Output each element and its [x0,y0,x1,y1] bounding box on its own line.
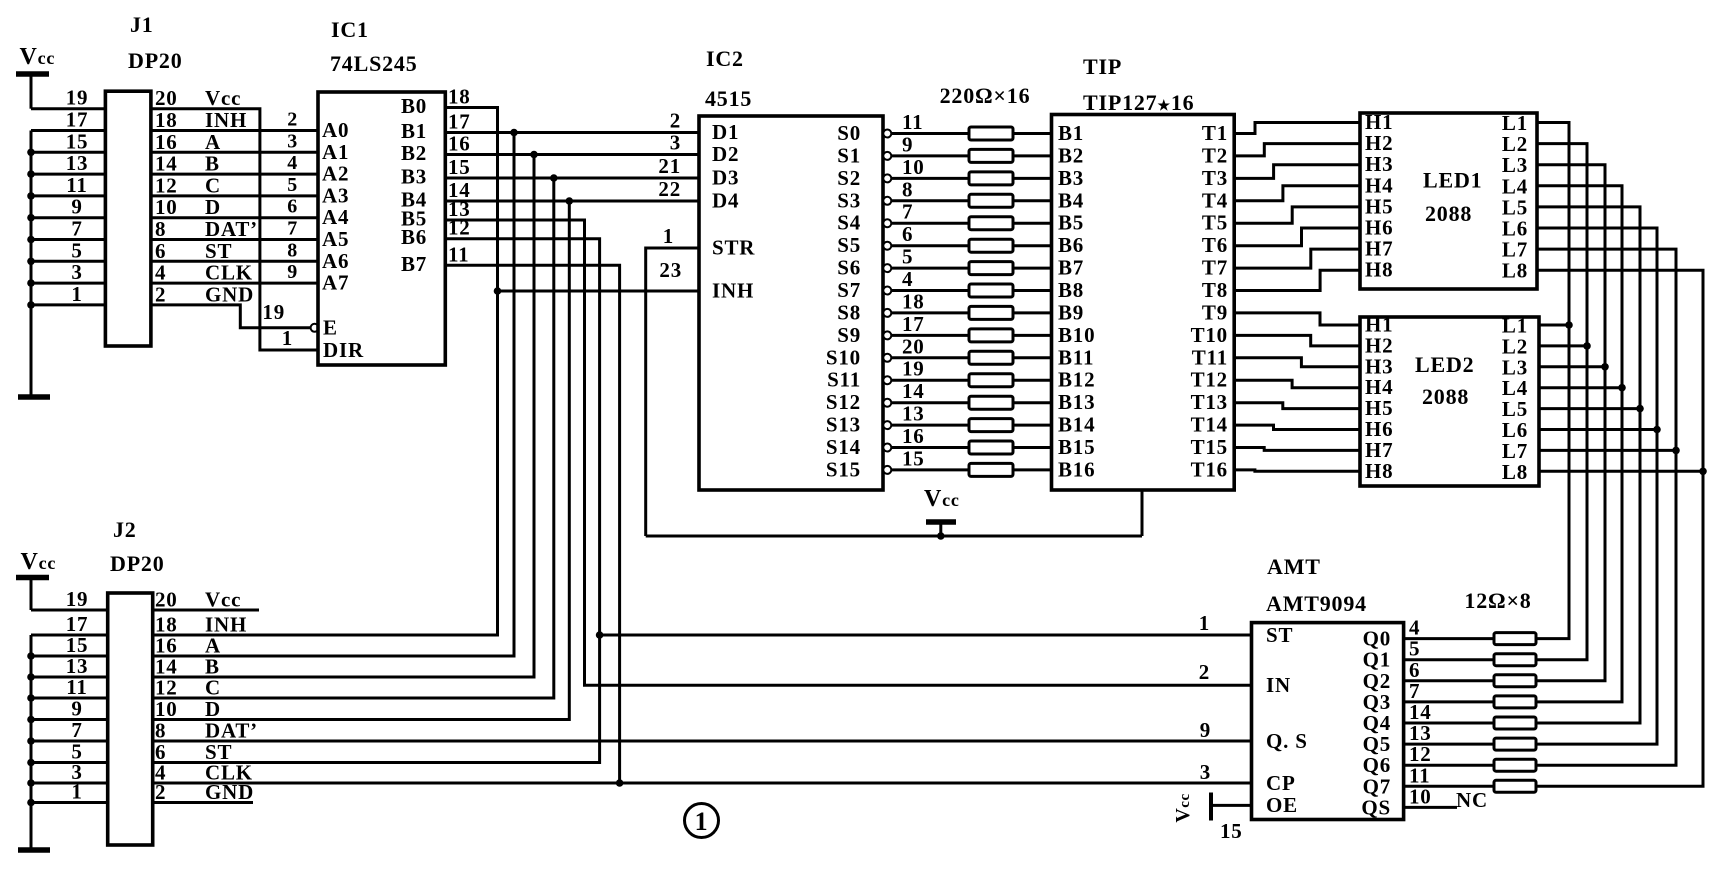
wire IC2 S4 to resistor R5 [891,222,969,225]
svg-text:4: 4 [902,267,913,291]
svg-text:19: 19 [66,86,89,110]
resistor r5 12 ohm [1494,717,1536,729]
resistor R15 220 ohm [969,441,1013,454]
connector J2 body [108,593,153,845]
svg-text:2: 2 [155,282,166,306]
wire LED2 L5 branch [1539,407,1640,410]
resistor R9 220 ohm [969,306,1013,319]
wire resistor R14 to TIP B14 [1013,424,1052,427]
svg-text:T6: T6 [1202,233,1228,257]
svg-text:9: 9 [1200,718,1211,742]
wire AMT Q0 to resistor r1 [1404,637,1494,640]
wire J2 pin 9 to ground bus [27,716,108,724]
wire resistor R10 to TIP B10 [1013,334,1052,337]
wire J1 pin 19 to Vcc [31,107,105,110]
svg-text:D4: D4 [712,189,739,213]
wire TIP T2 to LED1 H2 [1234,144,1360,156]
J1 right pin 12 label C [155,173,221,197]
svg-text:4515: 4515 [705,86,752,111]
J1 right pin 6 label ST [155,239,232,263]
svg-text:1: 1 [71,282,82,306]
svg-text:B16: B16 [1058,457,1095,481]
resistor r2 12 ohm [1494,654,1536,666]
wire LED1 L3 column to resistor r3 [1536,165,1609,681]
svg-text:1: 1 [663,224,674,248]
wire LED2 L6 branch [1539,428,1657,431]
wire C net vertical to J2 pin 12 [153,178,554,698]
resistor r1 12 ohm [1494,633,1536,645]
svg-text:1: 1 [1199,611,1210,635]
wire resistor R1 to TIP B1 [1013,132,1052,135]
wire TIP T1 to LED1 H1 [1234,123,1360,134]
svg-text:74LS245: 74LS245 [330,51,418,76]
svg-text:B7: B7 [401,252,427,276]
IC2 output pin 6 bubble [883,242,891,250]
svg-text:8: 8 [287,239,298,261]
svg-text:S14: S14 [826,435,861,459]
wire J1 pin 10 D to IC1 A4 [151,216,318,219]
svg-text:10: 10 [902,155,925,179]
wire LED1 L2 column to resistor r2 [1536,144,1591,660]
svg-text:D1: D1 [712,120,739,144]
wire LED1 L6 column to resistor r6 [1536,228,1661,744]
svg-text:9: 9 [902,132,913,156]
resistor R16 220 ohm [969,463,1013,476]
wire A net vertical to J2 pin 16 [153,133,514,657]
J2 right pin 6 label ST [155,740,232,764]
svg-text:INH: INH [205,108,247,132]
J2 right pin 16 label A [155,634,221,658]
svg-text:B2: B2 [1058,143,1084,167]
resistor r3 12 ohm [1494,675,1536,687]
svg-text:QS: QS [1361,795,1391,819]
svg-text:B9: B9 [1058,300,1084,324]
wire J1 pin 14 B to IC1 A2 [151,173,318,176]
svg-text:S7: S7 [837,278,861,302]
IC2 output pin 8 bubble [883,197,891,205]
svg-text:T13: T13 [1191,390,1228,414]
inverter bubble E pin IC1 [311,324,319,332]
svg-text:CP: CP [1266,771,1296,795]
svg-text:A: A [205,130,221,154]
wire CLK net B7 to J2 pin 4 and AMT CP [153,265,624,787]
power Vcc symbol J1 [16,44,55,109]
svg-text:8: 8 [902,177,913,201]
svg-text:9: 9 [71,697,82,721]
svg-text:S15: S15 [826,457,861,481]
svg-text:STR: STR [712,236,755,260]
svg-text:8: 8 [155,217,166,241]
svg-text:3: 3 [670,131,681,155]
svg-text:T8: T8 [1202,278,1228,302]
svg-text:B12: B12 [1058,368,1095,392]
wire IC2 S11 to resistor R12 [891,379,969,382]
svg-text:T10: T10 [1191,323,1228,347]
svg-text:A3: A3 [322,183,349,207]
svg-text:B7: B7 [1058,256,1084,280]
svg-text:D2: D2 [712,142,739,166]
wire IC2 S13 to resistor R14 [891,424,969,427]
svg-text:TIP127★16: TIP127★16 [1083,90,1194,115]
svg-text:INH: INH [712,279,754,303]
svg-text:Vcc: Vcc [205,86,241,110]
wire J2 DAT to AMT QS [153,740,1252,743]
wire AMT QS NC stub [1404,806,1457,809]
wire resistor R3 to TIP B3 [1013,177,1052,180]
resistor R3 220 ohm [969,172,1013,185]
wire TIP T3 to LED1 H3 [1234,165,1360,179]
op IC1 74LS245 body [318,92,445,365]
wire J1 pin 3 to ground bus [27,279,105,287]
wire J1 pin 12 C to IC1 A3 [151,194,318,197]
svg-text:8: 8 [155,719,166,743]
wire J2 pin 15 to ground bus [27,652,108,660]
wire AMT Q3 to resistor r4 [1404,700,1494,703]
display LED2 2088 body [1360,317,1539,486]
svg-text:Vcc: Vcc [20,44,56,70]
wire J1 pin 17 to ground bus [31,129,105,132]
wire IC2 S12 to resistor R13 [891,401,969,404]
svg-text:Vcc: Vcc [21,549,57,575]
wire resistor R5 to TIP B5 [1013,222,1052,225]
svg-text:4: 4 [155,261,166,285]
LED1 2088 title [1423,168,1482,227]
wire J2 pin 20 Vcc stub [153,609,259,612]
wire TIP T11 to LED2 H3 [1234,358,1360,367]
svg-text:ST: ST [1266,623,1293,647]
wire resistor R13 to TIP B13 [1013,401,1052,404]
wire resistor R7 to TIP B7 [1013,267,1052,270]
connector J1 title [128,12,183,73]
resistor r4 12 ohm [1494,696,1536,708]
svg-text:13: 13 [66,151,89,175]
wire IC2 S3 to resistor R4 [891,199,969,202]
wire IC2 S7 to resistor R8 [891,289,969,292]
wire J1 pin 18 INH to IC1 A0 [151,129,318,132]
svg-text:12Ω×8: 12Ω×8 [1464,588,1531,613]
ground bar J1 [18,394,50,400]
wire DAT net B5 to AMT IN [445,220,1251,685]
svg-text:18: 18 [902,289,925,313]
wire AMT Q7 to resistor r8 [1404,785,1494,788]
wire TIP T9 to LED2 H1 [1234,313,1360,325]
svg-text:T3: T3 [1202,166,1228,190]
svg-text:3: 3 [287,130,298,152]
wire ST net branch to AMT ST [600,634,1252,637]
IC2 output pin 5 bubble [883,264,891,272]
svg-text:Vcc: Vcc [924,486,960,512]
svg-text:9: 9 [71,195,82,219]
svg-text:1: 1 [282,326,293,350]
node B net junction [445,151,699,159]
wire LED2 L7 branch [1539,449,1676,452]
node C net junction [445,174,699,182]
wire IC2 S8 to resistor R9 [891,311,969,314]
wire LED1 L5 column to resistor r5 [1536,207,1644,723]
wire J2 pin 3 to ground bus [27,779,108,787]
svg-text:11: 11 [902,110,923,134]
wire LED2 L1 branch [1539,324,1569,327]
svg-text:S11: S11 [827,368,861,392]
svg-text:S9: S9 [837,323,861,347]
svg-text:13: 13 [902,402,925,426]
resistor R11 220 ohm [969,351,1013,364]
svg-text:T2: T2 [1202,143,1228,167]
wire resistor R6 to TIP B6 [1013,244,1052,247]
wire TIP T6 to LED1 H6 [1234,228,1360,246]
wire resistor R15 to TIP B15 [1013,446,1052,449]
wire LED1 L1 column to resistor r1 [1536,123,1573,639]
wire TIP T16 to LED2 H8 [1234,470,1360,471]
svg-text:20: 20 [155,86,178,110]
wire TIP T13 to LED2 H5 [1234,403,1360,409]
wire J2 pin 13 to ground bus [27,673,108,681]
wire TIP T5 to LED1 H5 [1234,207,1360,223]
svg-text:14: 14 [155,152,178,176]
IC2 output pin 11 bubble [883,130,891,138]
svg-text:T4: T4 [1202,188,1228,212]
wire J1 pin 13 to ground bus [27,170,105,178]
J2 right pin 14 label B [155,655,220,679]
J2 right pin 18 label INH [155,613,247,637]
svg-text:21: 21 [658,154,681,178]
wire AMT Q6 to resistor r7 [1404,764,1494,767]
AMT QS output label [1361,784,1431,819]
svg-text:3: 3 [1200,760,1211,784]
IC2 output pin 15 bubble [883,466,891,474]
svg-text:TIP: TIP [1083,54,1122,79]
wire IC2 STR pin 1 to Vcc rail [646,248,699,536]
resistor R13 220 ohm [969,396,1013,409]
J2 right pin 8 label DAT’ [155,719,258,743]
svg-text:DP20: DP20 [128,48,183,73]
svg-text:T11: T11 [1192,345,1228,369]
J1 right pin 20 label Vcc [155,86,241,110]
svg-text:12: 12 [155,676,178,700]
power Vcc symbol bottom rail [924,486,960,540]
svg-text:T7: T7 [1202,256,1228,280]
wire LED2 L2 branch [1539,344,1587,347]
svg-text:17: 17 [448,110,471,134]
svg-text:1: 1 [71,780,82,804]
resistor R8 220 ohm [969,284,1013,297]
wire J2 pin 1 to ground bus [27,799,108,807]
svg-text:B14: B14 [1058,413,1095,437]
svg-text:AMT9094: AMT9094 [1266,591,1367,616]
resistor R12 220 ohm [969,374,1013,387]
connector J1 body [105,91,150,346]
svg-text:10: 10 [1409,784,1432,808]
svg-text:2: 2 [155,780,166,804]
svg-text:D: D [205,697,221,721]
wire TIP T12 to LED2 H4 [1234,380,1360,388]
svg-text:B6: B6 [401,225,427,249]
svg-text:CLK: CLK [205,261,253,285]
wire J1 pin 15 to ground bus [27,149,105,157]
svg-text:10: 10 [155,697,178,721]
wire LED2 L3 branch [1539,365,1605,368]
svg-text:S8: S8 [837,300,861,324]
sound chip AMT9094 body [1252,623,1404,820]
wire resistor R12 to TIP B12 [1013,379,1052,382]
svg-text:DP20: DP20 [110,551,165,576]
J2 right pin 10 label D [155,697,221,721]
resistor R14 220 ohm [969,419,1013,432]
svg-text:DIR: DIR [323,338,364,362]
svg-text:5: 5 [287,174,298,196]
resistor R2 220 ohm [969,149,1013,162]
wire J1 pin 11 to ground bus [27,192,105,200]
wire J1 pin 7 to ground bus [27,236,105,244]
wire AMT Q5 to resistor r6 [1404,743,1494,746]
AMT9094 title [1266,554,1367,616]
wire D net vertical to J2 pin 10 [153,201,570,720]
wire J1 pin 5 to ground bus [27,258,105,266]
wire AMT Q4 to resistor r5 [1404,722,1494,725]
svg-text:17: 17 [902,312,925,336]
wire J2 pin 19 to Vcc [31,609,108,612]
wire Vcc rail bottom [646,535,1142,538]
svg-text:22: 22 [658,177,681,201]
wire resistor R8 to TIP B8 [1013,289,1052,292]
svg-text:OE: OE [1266,793,1298,817]
J1 right pin 10 label D [155,195,221,219]
svg-text:17: 17 [66,108,89,132]
svg-text:A7: A7 [322,271,349,295]
ground bus J2 [30,635,33,849]
wire J1 pin 16 A to IC1 A1 [151,151,318,154]
svg-text:A0: A0 [322,118,349,142]
svg-text:A6: A6 [322,249,349,273]
node D net junction [445,197,699,205]
svg-text:16: 16 [155,130,178,154]
svg-text:7: 7 [71,217,82,241]
svg-text:19: 19 [902,357,925,381]
IC2 output pin 7 bubble [883,219,891,227]
IC1 74LS245 title [330,17,418,76]
wire J2 GND stub [153,801,253,804]
svg-text:B: B [205,152,220,176]
svg-text:S1: S1 [837,143,861,167]
IC2 output pin 10 bubble [883,174,891,182]
wire resistor R9 to TIP B9 [1013,311,1052,314]
svg-text:S4: S4 [837,211,861,235]
wire J1 pin 4 CLK to IC1 A7 [151,282,318,285]
wire resistor R2 to TIP B2 [1013,154,1052,157]
svg-text:7: 7 [287,218,298,240]
svg-text:B11: B11 [1058,345,1094,369]
svg-text:11: 11 [66,675,87,699]
wire LED1 L4 column to resistor r4 [1536,186,1626,702]
svg-text:18: 18 [448,85,471,109]
svg-text:7: 7 [902,200,913,224]
svg-text:GND: GND [205,780,254,804]
svg-text:T1: T1 [1202,121,1228,145]
svg-text:S2: S2 [837,166,861,190]
svg-text:H8: H8 [1365,459,1393,483]
svg-text:LED2: LED2 [1415,352,1474,377]
svg-text:T5: T5 [1202,211,1228,235]
IC1 pin DIR label [282,326,364,362]
wire IC2 S1 to resistor R2 [891,154,969,157]
svg-text:LED1: LED1 [1423,168,1482,193]
wire IC2 INH pin 23 branch [498,290,700,293]
power Vcc symbol AMT OE [1172,793,1252,823]
wire AMT Q1 to resistor r2 [1404,658,1494,661]
svg-text:T9: T9 [1202,300,1228,324]
wire B0 INH net to IC2 INH and J2 pin 18 [153,108,502,636]
svg-text:A4: A4 [322,205,349,229]
resistor R4 220 ohm [969,194,1013,207]
svg-text:B0: B0 [401,94,427,118]
svg-text:B13: B13 [1058,390,1095,414]
resistor r7 12 ohm [1494,759,1536,771]
svg-text:5: 5 [902,245,913,269]
wire J2 pin 5 to ground bus [27,759,108,767]
svg-text:NC: NC [1456,788,1488,812]
svg-text:6: 6 [287,196,298,218]
wire resistor R11 to TIP B11 [1013,356,1052,359]
svg-text:7: 7 [71,718,82,742]
IC2 output pin 20 bubble [883,354,891,362]
svg-text:B1: B1 [401,119,427,143]
resistor R1 220 ohm [969,127,1013,140]
resistor R7 220 ohm [969,262,1013,275]
svg-text:Q. S: Q. S [1266,729,1308,753]
svg-text:12: 12 [155,173,178,197]
IC1 pin E label [262,300,337,340]
svg-text:15: 15 [902,446,925,470]
wire J1 pin 9 to ground bus [27,214,105,222]
svg-text:S0: S0 [837,121,861,145]
wire CLK net branch to AMT CP [620,782,1252,785]
J2 right pin 20 label Vcc [155,588,241,612]
wire B net vertical to J2 pin 14 [153,155,534,678]
wire TIP T8 to LED1 H8 [1234,270,1360,290]
svg-text:B1: B1 [1058,121,1084,145]
wire J1 GND to E [151,305,311,328]
svg-text:S13: S13 [826,413,861,437]
svg-text:DAT’: DAT’ [205,217,258,241]
svg-text:A5: A5 [322,227,349,251]
svg-text:S6: S6 [837,256,861,280]
IC2 output pin 16 bubble [883,444,891,452]
svg-text:2: 2 [670,109,681,133]
resistor R5 220 ohm [969,217,1013,230]
svg-text:16: 16 [902,424,925,448]
wire J1 pin 1 to ground bus [27,301,105,309]
wire TIP T4 to LED1 H4 [1234,186,1360,201]
svg-text:S10: S10 [826,345,861,369]
svg-text:10: 10 [155,195,178,219]
svg-text:GND: GND [205,282,254,306]
IC2 output pin 17 bubble [883,331,891,339]
J1 right pin 2 label GND [155,282,254,306]
svg-text:IN: IN [1266,673,1291,697]
svg-text:4: 4 [287,152,298,174]
J1 right pin 14 label B [155,152,220,176]
svg-text:B8: B8 [1058,278,1084,302]
power Vcc symbol J2 [16,549,56,610]
resistor r6 12 ohm [1494,738,1536,750]
svg-text:AMT: AMT [1267,554,1321,579]
wire resistor R4 to TIP B4 [1013,199,1052,202]
TIP transistor array title [1083,54,1194,115]
IC2 output pin 4 bubble [883,287,891,295]
svg-text:14: 14 [902,379,925,403]
svg-text:T14: T14 [1191,413,1228,437]
svg-text:S12: S12 [826,390,861,414]
